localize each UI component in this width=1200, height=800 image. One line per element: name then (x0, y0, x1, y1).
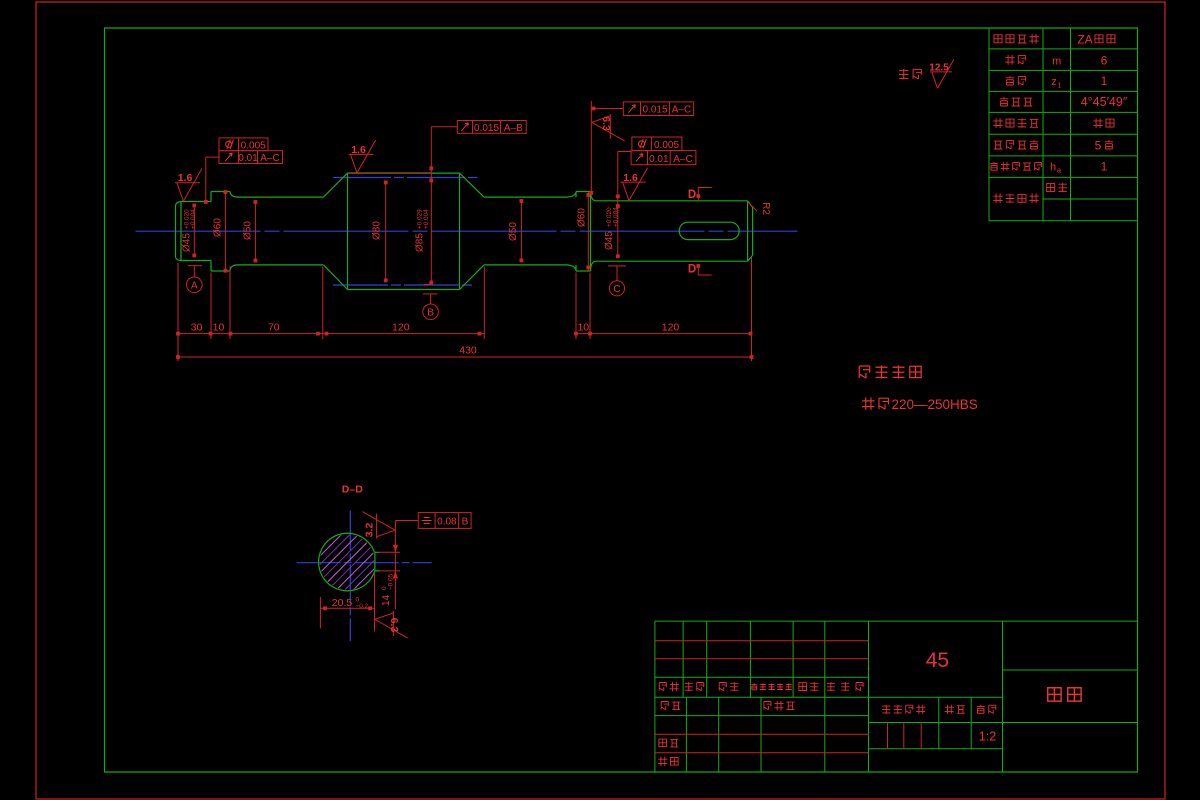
svg-text:45: 45 (926, 649, 949, 672)
svg-text:Ø45: Ø45 (604, 231, 615, 250)
worm pitch line top (333, 177, 478, 179)
svg-text:1: 1 (1057, 80, 1061, 89)
D-D symmetry tolerance frame 0.08 B (418, 513, 471, 529)
keyway slot on shaft (stadium) (679, 222, 739, 239)
tech requirements title (859, 366, 869, 378)
tb zhongliang (945, 705, 954, 714)
D-D section circle with keyway notch (319, 533, 375, 591)
param row5 value (1093, 118, 1103, 128)
param row6 label (994, 141, 1002, 149)
svg-text:C: C (613, 284, 620, 295)
svg-text:0.005: 0.005 (654, 140, 679, 151)
svg-text:Ø60: Ø60 (213, 218, 224, 237)
tb jieduanbiaoji (882, 705, 890, 714)
svg-text:5: 5 (1095, 138, 1102, 152)
dia dim line d50 left (254, 202, 256, 261)
tb biaoji (659, 683, 666, 691)
svg-text:10: 10 (213, 321, 225, 333)
svg-text:Ø50: Ø50 (243, 221, 254, 240)
tolerance frame 0.005 / 0.01 A-C (left) (219, 138, 268, 151)
svg-text:1.6: 1.6 (623, 172, 638, 184)
title block red lines (655, 640, 869, 642)
svg-text:20.5: 20.5 (332, 597, 353, 609)
param row1 label (994, 35, 1002, 43)
svg-text:B: B (427, 308, 434, 319)
roughness 1.6 left (175, 168, 202, 201)
tb fenqu (719, 683, 726, 691)
dia dim line d45 left (193, 206, 195, 256)
svg-text:0.005: 0.005 (241, 140, 266, 151)
svg-text:1.6: 1.6 (351, 144, 366, 156)
main horizontal centerline (136, 230, 798, 232)
svg-text:120: 120 (662, 321, 680, 333)
datum C (608, 265, 626, 267)
param row4 label (1000, 97, 1008, 106)
param row5 label (993, 118, 1003, 128)
svg-text:A–C: A–C (672, 105, 691, 116)
tb chushu (685, 682, 693, 691)
dimension line row (30/10/70/120/10/120) (178, 333, 484, 335)
param row8 sub (1047, 184, 1055, 192)
svg-text:3.2: 3.2 (364, 523, 376, 538)
dia dim line d80 (385, 182, 387, 280)
svg-text:Ø45: Ø45 (182, 233, 193, 252)
svg-text:1: 1 (1101, 160, 1108, 174)
svg-text:4°45′49″: 4°45′49″ (1081, 95, 1128, 109)
tb qianming (799, 683, 807, 691)
tb genggai (751, 683, 757, 690)
svg-text:10: 10 (577, 321, 589, 333)
tb biaozhunhua (764, 702, 771, 710)
svg-text:1:2: 1:2 (979, 730, 996, 744)
svg-text:1: 1 (1101, 74, 1108, 88)
svg-text:6.3: 6.3 (600, 116, 612, 131)
svg-text:430: 430 (459, 345, 477, 357)
tb nianyueri (827, 682, 835, 691)
tb gongyi (658, 757, 667, 766)
d85 extension over worm top (348, 172, 432, 174)
svg-text:−0.05: −0.05 (387, 573, 394, 590)
svg-text:14: 14 (381, 594, 392, 606)
dia dim line d85 (430, 127, 432, 283)
roughness 1.6 worm (349, 140, 376, 173)
svg-text:220—250HBS: 220—250HBS (892, 397, 978, 412)
svg-text:0.015: 0.015 (642, 105, 667, 116)
svg-text:1.6: 1.6 (178, 172, 193, 184)
svg-text:−0.2: −0.2 (356, 603, 369, 610)
svg-text:ZA: ZA (1077, 33, 1092, 47)
title block green grid (654, 621, 656, 772)
keyway section extension line vertical (590, 101, 592, 193)
svg-text:30: 30 (191, 321, 203, 333)
svg-text:Ø50: Ø50 (508, 222, 519, 241)
chamfer label R2 (748, 202, 757, 211)
overall dim line 430 (178, 356, 752, 358)
D-D vertical centerline (349, 510, 351, 641)
svg-text:Ø85: Ø85 (415, 233, 426, 252)
worm pitch line bottom (333, 284, 475, 286)
svg-text:R2: R2 (760, 202, 771, 215)
d85 extension bottom short (424, 284, 432, 286)
dimension extension lines (177, 263, 179, 361)
svg-text:A: A (191, 281, 198, 292)
svg-text:120: 120 (392, 321, 410, 333)
tolerance frame 0.015 A-C (right) (623, 102, 693, 116)
tb bili (977, 705, 985, 714)
svg-text:Ø80: Ø80 (372, 221, 383, 240)
dia dim line d45 right (617, 152, 619, 257)
tb part name (1048, 688, 1061, 701)
param row2 label (1005, 55, 1015, 65)
dia dim line d50 right (520, 201, 522, 260)
svg-text:D: D (688, 189, 696, 201)
param row7 label (990, 162, 998, 170)
D-D dim 20.5 (319, 597, 321, 629)
svg-text:+0.004: +0.004 (423, 209, 430, 229)
svg-text:+0.004: +0.004 (612, 207, 619, 227)
tolerance frame 0.015 A-B (worm) (457, 121, 526, 134)
param row3 label (1006, 76, 1014, 85)
svg-text:0.01: 0.01 (238, 153, 258, 164)
svg-text:0.08: 0.08 (437, 517, 457, 528)
svg-text:12.5: 12.5 (929, 63, 949, 74)
remainder roughness 12.5 (930, 59, 954, 88)
svg-text:h: h (1050, 162, 1056, 174)
svg-text:D: D (688, 264, 696, 276)
datum B (423, 293, 438, 295)
D-D horizontal centerline (297, 562, 432, 564)
roughness 6.3 keyway ext (592, 114, 625, 141)
svg-text:z: z (1051, 76, 1057, 88)
dia dim line d60 left (224, 192, 226, 271)
svg-text:6.3: 6.3 (388, 618, 400, 633)
D-D roughness 6.3 (375, 611, 408, 638)
svg-text:D–D: D–D (342, 484, 363, 496)
svg-text:+0.004: +0.004 (190, 209, 197, 229)
tolerance frame 0.005 / 0.01 A-C (right) (632, 137, 682, 151)
svg-text:0.015: 0.015 (474, 123, 499, 134)
svg-text:6: 6 (1101, 53, 1108, 67)
tb shenhe (659, 739, 667, 747)
remainder label text (899, 69, 909, 79)
svg-text:A–B: A–B (504, 123, 523, 134)
svg-text:B: B (462, 517, 469, 528)
roughness 1.6 right (621, 168, 648, 201)
svg-text:A–C: A–C (260, 153, 279, 164)
D-D roughness 3.2 (362, 512, 395, 539)
svg-text:A–C: A–C (673, 154, 692, 165)
dia dim line d60 right (587, 192, 589, 271)
tech requirements body (862, 397, 875, 410)
svg-text:70: 70 (268, 321, 280, 333)
tb sheji (661, 702, 668, 710)
shaft outline (176, 173, 753, 289)
svg-text:m: m (1052, 55, 1061, 67)
datum A (188, 265, 202, 267)
worm parameter table grid (989, 48, 1138, 50)
svg-text:Ø60: Ø60 (577, 208, 588, 227)
param row8 label (993, 193, 1003, 203)
D-D dim 14 (380, 551, 400, 553)
svg-text:0.01: 0.01 (649, 154, 669, 165)
